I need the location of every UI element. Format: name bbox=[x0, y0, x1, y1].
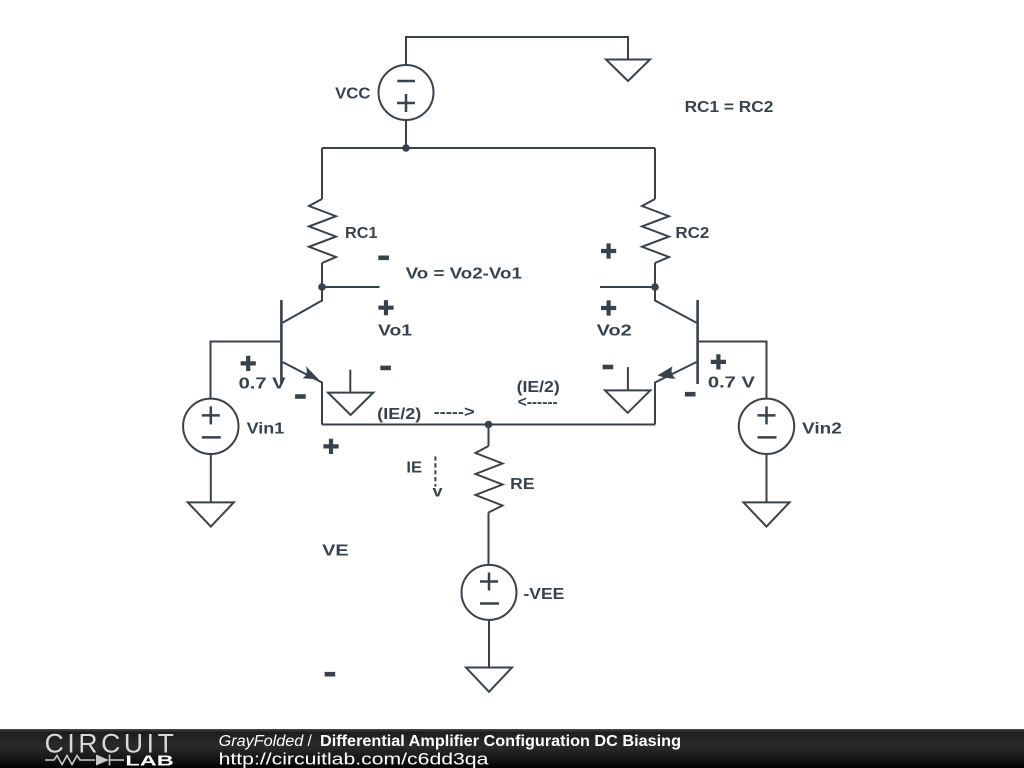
svg-text:GrayFolded: GrayFolded bbox=[219, 733, 305, 750]
svg-text:Vin1: Vin1 bbox=[247, 421, 285, 438]
svg-text:VCC: VCC bbox=[335, 86, 371, 103]
wire: RC1 to collector node bbox=[321, 263, 323, 287]
plus above Vo1 bbox=[378, 300, 393, 315]
wire: emitter node to RE bbox=[488, 425, 490, 447]
svg-text:(IE/2): (IE/2) bbox=[377, 406, 421, 423]
svg-text:Vo = Vo2-Vo1: Vo = Vo2-Vo1 bbox=[406, 266, 522, 283]
svg-text:Vin2: Vin2 bbox=[802, 421, 842, 438]
svg-text:LAB: LAB bbox=[125, 753, 173, 768]
wire: VCC bottom stub bbox=[405, 120, 407, 148]
ground under Vin1 bbox=[188, 502, 234, 526]
minus below Vo1 bbox=[380, 366, 391, 371]
node: Q2 collector bbox=[651, 283, 659, 291]
svg-text:----->: -----> bbox=[434, 404, 475, 421]
svg-text:/: / bbox=[308, 733, 313, 750]
footer title bbox=[219, 733, 681, 768]
wire: Vin2 to ground bbox=[766, 454, 768, 502]
svg-text:<------: <------ bbox=[518, 394, 558, 411]
wire: rail to RC1 bbox=[321, 148, 323, 199]
svg-text:http://circuitlab.com/c6dd3qa: http://circuitlab.com/c6dd3qa bbox=[219, 749, 489, 768]
svg-text:RC1: RC1 bbox=[345, 225, 378, 242]
ground bottom bbox=[466, 668, 512, 692]
plus 0.7V right bbox=[711, 354, 726, 369]
svg-text:0.7 V: 0.7 V bbox=[708, 375, 755, 392]
source VCC bbox=[379, 65, 434, 120]
floating ground right bbox=[605, 367, 650, 413]
ground under Vin2 bbox=[744, 502, 790, 526]
svg-text:VE: VE bbox=[322, 543, 349, 560]
plus 0.7V left bbox=[241, 356, 256, 371]
minus left emitter bbox=[295, 394, 306, 399]
wire: -VEE to ground bbox=[488, 620, 490, 668]
minus above Vo1 stub bbox=[378, 256, 389, 261]
source Vin2 bbox=[739, 399, 794, 454]
minus VE bbox=[325, 672, 336, 677]
wire: rail to RC2 bbox=[654, 148, 656, 199]
wire: Vin1 to ground bbox=[210, 454, 212, 502]
footer bar bbox=[0, 729, 1024, 768]
node: emitter junction bbox=[485, 421, 493, 429]
svg-text:v: v bbox=[433, 484, 443, 501]
source Vin1 bbox=[183, 399, 238, 454]
wire: bottom rail bbox=[322, 424, 655, 426]
plus VE bbox=[323, 439, 338, 454]
resistor RC2 bbox=[642, 199, 669, 263]
current arrow IE dashed bbox=[434, 456, 436, 486]
wire: top rail bbox=[322, 147, 655, 149]
polarity marks bbox=[241, 243, 726, 676]
source -VEE bbox=[462, 565, 517, 620]
wire: RC2 to collector node bbox=[654, 263, 656, 287]
svg-text:Vo1: Vo1 bbox=[378, 323, 412, 340]
ground top-right bbox=[606, 60, 650, 82]
floating ground left bbox=[328, 370, 373, 415]
wire: Q1 base lead bbox=[211, 342, 281, 399]
wire: Q2 base lead bbox=[699, 342, 767, 399]
node: VCC-rail junction bbox=[402, 144, 410, 152]
svg-text:RC1 = RC2: RC1 = RC2 bbox=[685, 99, 774, 116]
svg-text:0.7 V: 0.7 V bbox=[239, 375, 286, 392]
svg-text:RE: RE bbox=[510, 476, 535, 493]
minus right emitter bbox=[685, 392, 696, 397]
CircuitLab logo bbox=[45, 728, 174, 768]
svg-text:Vo2: Vo2 bbox=[597, 323, 632, 340]
minus below Vo2 bbox=[603, 365, 614, 370]
wire: VCC top stub bbox=[406, 37, 628, 65]
svg-text:-VEE: -VEE bbox=[524, 586, 565, 603]
resistor RE bbox=[476, 446, 503, 513]
node: Q1 collector bbox=[318, 283, 326, 291]
svg-text:IE: IE bbox=[406, 460, 422, 477]
svg-text:Differential Amplifier Configu: Differential Amplifier Configuration DC … bbox=[320, 733, 681, 750]
resistor RC1 bbox=[309, 199, 336, 263]
wire: Vo2 stub bbox=[600, 286, 655, 288]
wire: RE to -VEE bbox=[488, 513, 490, 565]
transistor Q2 bbox=[655, 287, 698, 425]
plus above RC2 bottom bbox=[601, 243, 616, 258]
wire: Vo1 stub bbox=[322, 286, 380, 288]
plus above Vo2 bbox=[601, 300, 616, 315]
svg-text:RC2: RC2 bbox=[675, 225, 709, 242]
transistor Q1 bbox=[281, 287, 322, 425]
